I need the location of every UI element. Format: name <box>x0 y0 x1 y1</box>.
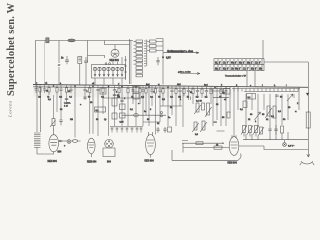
resistor R6 <box>102 86 104 96</box>
junction J8 <box>167 86 169 88</box>
capacitor C16 <box>205 87 208 95</box>
box near rail <box>224 89 231 95</box>
resistor R10 <box>227 112 230 118</box>
main bus rail <box>33 85 308 88</box>
resistor R8 <box>196 103 199 112</box>
wire stub to tube <box>114 45 116 50</box>
junction <box>162 56 164 58</box>
resistor R8b <box>202 103 205 110</box>
capacitor C3 <box>59 85 62 93</box>
svg-text:Lorenz: Lorenz <box>8 101 13 118</box>
box R5b <box>100 88 106 94</box>
svg-text:6,3V: 6,3V <box>166 58 171 60</box>
note arrow left of table <box>178 71 200 75</box>
wire <box>162 57 164 84</box>
resistor R4 <box>65 85 71 95</box>
switch comb on right rail <box>234 89 298 92</box>
wire <box>88 56 105 59</box>
tube V2 REN904 <box>49 129 63 152</box>
resistor R1 <box>39 85 41 95</box>
drum switch table <box>214 59 264 71</box>
capacitor C9 <box>141 86 144 94</box>
wire antenna coupling <box>87 41 89 63</box>
faint inner vertical <box>44 41 46 85</box>
resistor R9 <box>139 86 141 96</box>
coupling caps row <box>213 97 229 131</box>
grid loop wire <box>172 150 241 160</box>
wire inner vertical <box>58 41 60 85</box>
resistor R10 <box>145 86 147 96</box>
sub rail below comb <box>244 91 298 93</box>
svg-text:REN 904: REN 904 <box>110 60 120 62</box>
svg-text:6,3 V~: 6,3 V~ <box>288 146 295 148</box>
tube V5 RES964 <box>229 135 239 155</box>
capacitor C10 <box>59 120 62 125</box>
trimmer capacitors row <box>93 67 123 77</box>
lamp X <box>61 140 71 144</box>
headphone jack <box>300 62 314 165</box>
right rail segment <box>232 88 300 90</box>
svg-text:Lautst.: Lautst. <box>64 102 71 105</box>
lower cap row mid <box>111 127 143 133</box>
coil tap wire <box>124 56 127 80</box>
capacitor C11 <box>158 86 161 94</box>
resistor R15 <box>192 87 194 97</box>
right lower caps <box>268 125 271 135</box>
svg-text:Abstimmanzeiger n. oben: Abstimmanzeiger n. oben <box>167 50 194 53</box>
pass ellipse <box>134 114 139 117</box>
arrow symbol <box>287 94 293 101</box>
capacitor C15 <box>196 87 199 95</box>
potentiometer P1 <box>52 119 55 126</box>
capacitor C14 <box>187 87 193 95</box>
resistor R18 <box>220 87 226 97</box>
resistor R16 <box>201 87 203 97</box>
right lower pots <box>243 126 246 133</box>
capacitor C5 <box>83 86 88 94</box>
resistor R3 <box>56 85 58 95</box>
coil L2 with core <box>78 57 82 85</box>
junction arrow below rail <box>306 93 309 96</box>
svg-text:Trommelschalter = W: Trommelschalter = W <box>225 74 247 77</box>
left mid caps <box>65 99 68 100</box>
wire <box>110 126 143 128</box>
agc bus line <box>103 97 144 99</box>
wire nested line <box>105 41 130 45</box>
resistor R14 <box>183 87 185 97</box>
junction J3 <box>92 86 94 88</box>
svg-text:0,1 50: 0,1 50 <box>196 101 203 103</box>
wire tube to gang <box>113 62 117 65</box>
lower cluster boxes <box>194 122 197 130</box>
resistor box R5 <box>95 107 106 112</box>
right mid resistors <box>247 94 256 100</box>
table drops <box>247 71 255 87</box>
svg-text:REN 904: REN 904 <box>228 163 238 165</box>
pilot lamp <box>283 140 287 147</box>
svg-text:REN 904: REN 904 <box>48 161 58 163</box>
capacitor C8 <box>131 86 134 94</box>
long vertical wires <box>54 85 295 137</box>
antenna input box frame <box>36 41 134 85</box>
svg-text:geht n. rechts: geht n. rechts <box>178 71 191 74</box>
second rail <box>33 87 230 89</box>
agc chain boxes <box>112 98 117 106</box>
tube V3 REN904 <box>88 138 96 157</box>
tube socket <box>103 139 115 156</box>
fuse oval <box>71 140 81 143</box>
junction J9 <box>214 87 216 89</box>
wire <box>121 57 123 65</box>
svg-text:2M: 2M <box>70 119 73 121</box>
svg-text:RES 964: RES 964 <box>145 161 155 163</box>
wire anode out <box>239 146 308 150</box>
band wash <box>33 85 232 98</box>
fuse F1 on box top <box>46 38 49 43</box>
wire <box>262 40 264 59</box>
junction J4 <box>108 86 110 88</box>
capacitor C13 <box>178 87 181 95</box>
resistor R11 <box>154 86 156 96</box>
svg-text:Supercelohet sen. W: Supercelohet sen. W <box>6 3 17 97</box>
hv line2 <box>160 105 182 107</box>
left IF coil L3 <box>34 85 54 155</box>
resistor R17 <box>210 87 212 97</box>
component row under main rail <box>34 85 227 99</box>
capacitor C12 <box>170 86 173 94</box>
resistor R13 <box>175 87 177 97</box>
capacitor C7 <box>113 86 118 94</box>
junction J5 <box>121 86 123 88</box>
svg-text:2k: 2k <box>216 144 218 146</box>
lower heater rail <box>243 132 308 140</box>
resistor R12 <box>162 86 164 96</box>
gang input terminals <box>105 63 107 65</box>
svg-text:2M: 2M <box>38 97 41 99</box>
resistor R7 <box>118 86 120 96</box>
capacitor C8 <box>156 57 159 65</box>
junction J2 <box>74 85 76 87</box>
junction J1 <box>53 85 55 87</box>
capacitor C17 <box>224 87 227 95</box>
wire gang drops <box>95 78 122 85</box>
wire <box>162 39 164 58</box>
tuning gang frame <box>92 65 126 79</box>
box right of V4 <box>168 127 172 132</box>
break squiggle <box>58 64 61 66</box>
resistor R8 <box>127 86 129 96</box>
oscillator tube V1 REN904 <box>111 49 119 57</box>
output strip <box>182 141 229 153</box>
net labels above rail <box>36 83 287 88</box>
terminal circle <box>59 140 61 142</box>
resistor R5 <box>89 86 91 96</box>
indicator wire with arrow <box>163 50 199 54</box>
capacitor C1 <box>34 85 37 93</box>
resistor R10b <box>243 101 247 108</box>
hv line3 <box>143 121 160 123</box>
tube V4 RES964 <box>146 132 156 158</box>
right column boxes <box>133 87 139 93</box>
junction J7 <box>148 86 150 88</box>
fuse F2 on box top <box>68 39 75 42</box>
resistor R2 <box>48 85 50 95</box>
svg-text:REN 904: REN 904 <box>87 162 97 164</box>
capacitor C2 <box>43 85 49 93</box>
capacitor C4 <box>69 85 72 93</box>
capacitor C2 <box>84 57 88 85</box>
wire right edge <box>298 88 300 111</box>
band switch contacts <box>147 39 163 53</box>
capacitor C10 <box>150 86 155 94</box>
right of V4 caps <box>156 127 159 133</box>
tall resistor right <box>306 112 310 128</box>
oscillator coil pack <box>130 39 147 84</box>
svg-text:Qr: Qr <box>104 118 107 121</box>
hv line <box>122 114 166 116</box>
svg-text:1 M: 1 M <box>64 106 68 108</box>
connector circles <box>161 112 163 114</box>
wire <box>264 61 308 63</box>
capacitor C6 <box>96 86 99 94</box>
capacitor C1 <box>61 56 69 64</box>
junction J6 <box>135 86 137 88</box>
potentiometer P2 <box>207 103 210 115</box>
